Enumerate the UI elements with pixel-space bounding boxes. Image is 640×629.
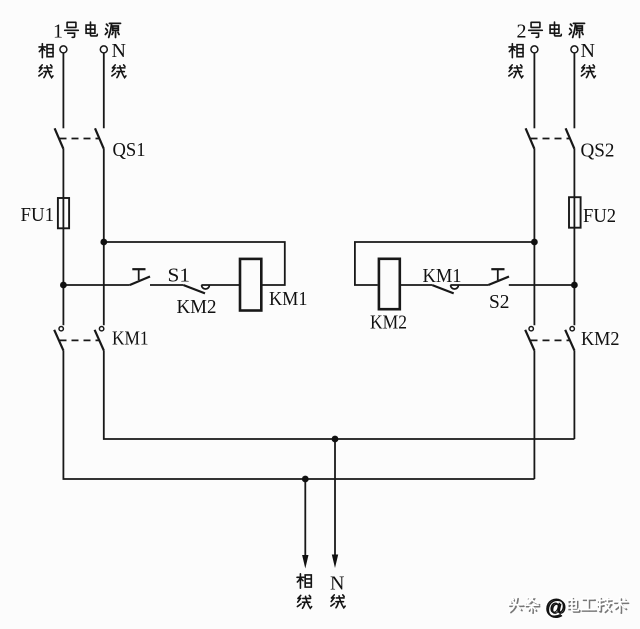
svg-text:QS2: QS2 [581, 140, 615, 162]
svg-text:S2: S2 [489, 291, 510, 313]
svg-text:KM2: KM2 [370, 312, 407, 334]
svg-text:FU1: FU1 [21, 204, 55, 226]
svg-text:KM2: KM2 [177, 296, 217, 318]
svg-text:1: 1 [53, 21, 63, 43]
svg-text:S1: S1 [168, 265, 191, 287]
svg-text:QS1: QS1 [113, 139, 146, 161]
svg-text:KM2: KM2 [581, 328, 620, 350]
svg-text:N: N [330, 573, 344, 595]
svg-text:N: N [581, 40, 595, 62]
svg-text:KM1: KM1 [423, 265, 462, 287]
svg-text:FU2: FU2 [583, 205, 616, 227]
svg-text:N: N [112, 40, 126, 62]
svg-text:2: 2 [517, 21, 527, 43]
svg-text:KM1: KM1 [269, 288, 308, 310]
svg-text:KM1: KM1 [112, 328, 149, 350]
svg-text:@: @ [545, 596, 565, 619]
